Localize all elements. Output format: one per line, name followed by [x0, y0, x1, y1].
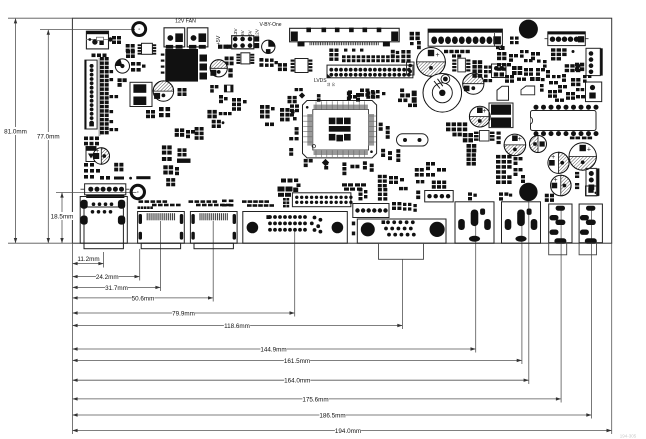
pads below U4 — [228, 68, 232, 77]
capacitor C5 — [210, 60, 227, 77]
connector CN17 — [586, 82, 602, 102]
dimension 186.5mm (bottom) — [72, 411, 591, 419]
pad grid right-mid — [496, 155, 525, 183]
dimension 11.2mm (bottom) — [72, 256, 103, 265]
resistor R4 — [224, 85, 233, 92]
capacitor C9 — [504, 134, 526, 156]
pad band above CN13 — [329, 49, 399, 63]
svg-text:+5V: +5V — [216, 35, 222, 45]
IC U1 (main scaler QFP) — [303, 101, 377, 158]
diode D1 — [86, 147, 96, 162]
resistor R1 — [100, 176, 124, 180]
VGA mounting tab — [379, 243, 424, 259]
svg-text:186.5mm: 186.5mm — [319, 412, 345, 419]
pad cluster above J6 — [432, 181, 446, 189]
svg-text:194.0mm: 194.0mm — [335, 428, 361, 435]
component SW1 — [586, 186, 599, 196]
pad cluster H — [260, 105, 275, 118]
connector CN2 (panel, left column) — [85, 58, 101, 136]
label V-BY-One — [259, 22, 281, 28]
pad cluster below CN13 — [348, 89, 385, 99]
capacitor C1 — [153, 81, 173, 101]
watermark — [620, 434, 637, 439]
svg-text:31.7mm: 31.7mm — [105, 285, 128, 292]
pad grid right-2 — [565, 64, 581, 72]
svg-text:+: + — [482, 108, 486, 115]
label 12V FAN — [175, 19, 196, 25]
silkscreen pads above DVI — [222, 200, 274, 207]
svg-text:+: + — [554, 177, 558, 184]
pad cluster right of U4 — [259, 58, 287, 71]
pad cluster 2x2 right of hole — [545, 194, 554, 202]
resistor row right of C6 — [444, 50, 470, 58]
component SW2 (tact switch outline) — [497, 86, 509, 100]
pad cluster NW of U1 — [288, 88, 303, 103]
svg-text:V-BY-One: V-BY-One — [259, 22, 281, 28]
connector CN12 (V-BY-One) — [290, 28, 400, 47]
svg-text:50.6mm: 50.6mm — [132, 295, 155, 302]
svg-text:+: + — [95, 148, 99, 155]
dense pad field top-right — [496, 37, 591, 102]
pad cluster NE of CN13 — [391, 50, 411, 63]
connector CN3 (RJ45 jack) — [80, 197, 127, 249]
resistor row below DIP — [570, 137, 592, 140]
resistor R2 — [136, 176, 150, 179]
svg-text:+: + — [435, 52, 439, 59]
svg-text:18.5mm: 18.5mm — [51, 213, 74, 220]
svg-text:30: 30 — [332, 83, 336, 87]
pad cluster right of CN1 — [112, 36, 121, 44]
svg-text:79.9mm: 79.9mm — [172, 310, 195, 317]
connector CN14 (10-pin header) — [428, 29, 504, 50]
capacitor C15 — [551, 175, 572, 196]
dimension 175.6mm (bottom) — [72, 395, 561, 403]
dimension 50.6mm (bottom) — [72, 294, 213, 302]
connector CN16 (4-pin top-right) — [586, 48, 603, 75]
header J6 (4-pin) — [425, 191, 454, 202]
capacitor C7 — [463, 73, 484, 94]
pads above long connector — [92, 54, 107, 58]
pad grid E of U6 — [472, 60, 492, 82]
header J5 (6-pin above VGA) — [353, 204, 389, 218]
mounting hole filled top-right — [519, 20, 538, 39]
pad cluster F (upper right of C1) — [210, 85, 218, 93]
component K2 (4-pad) — [492, 64, 507, 78]
mounting hole filled right-mid — [519, 183, 537, 201]
pad cluster E of U1 — [379, 123, 401, 162]
pad pairs left of CN15 — [575, 172, 579, 189]
svg-text:11.2mm: 11.2mm — [77, 256, 99, 263]
connector CN11 (audio jack 2) — [579, 204, 602, 244]
svg-text:+: + — [518, 136, 522, 143]
svg-text:77.0mm: 77.0mm — [37, 133, 60, 140]
dimension 118.6mm (bottom) — [72, 322, 402, 330]
pad cluster W of CN14 — [410, 32, 421, 49]
svg-text:144.9mm: 144.9mm — [260, 346, 286, 353]
obround slot with vias — [397, 134, 429, 146]
pad cluster 2x2 mid-left — [114, 163, 123, 172]
test pad (diamond NW) — [299, 92, 305, 98]
pad cluster D — [162, 145, 187, 161]
pad cluster above strip — [118, 78, 127, 87]
svg-text:194-305: 194-305 — [620, 434, 637, 439]
dimension 164.0mm (bottom) — [72, 376, 528, 384]
pad cluster left of U2 — [126, 44, 135, 52]
pad grid right-1 — [551, 48, 567, 60]
connector CN15 (4-pin right) — [586, 168, 599, 195]
capacitor C4 — [262, 40, 275, 53]
pad cluster B — [175, 127, 204, 140]
dimension 144.9mm (bottom) — [72, 345, 475, 353]
pad cluster G (C pads) — [219, 95, 247, 111]
connector CN5 (HDMI 2) — [190, 212, 237, 249]
pad rows below C2 — [84, 163, 100, 179]
silkscreen pads above HDMI 2 — [189, 200, 231, 206]
capacitor C12 — [530, 136, 547, 153]
IC U6 (TSSOP) — [452, 58, 470, 72]
label LVDS — [314, 78, 336, 86]
pads west of L1 — [398, 89, 417, 108]
connector CN10 (audio jack 1) — [549, 204, 572, 244]
via dot C — [222, 121, 225, 124]
svg-text:LVDS: LVDS — [314, 78, 327, 84]
IC U5 (TSSOP) — [291, 59, 313, 73]
svg-text:12V FAN: 12V FAN — [175, 19, 196, 25]
dimension 194.0mm (bottom) — [72, 427, 611, 435]
pad block SE of slot — [467, 149, 476, 166]
dimension 81.0mm (left) — [4, 18, 27, 243]
dimension 18.5mm (left) — [51, 192, 74, 243]
component Y1 (2-pin) — [407, 62, 415, 75]
pad cluster A — [146, 107, 170, 118]
pad cluster E2 — [163, 165, 179, 186]
connector CN8 (AV jack 1) — [455, 202, 494, 243]
connector CN13 (LVDS) — [327, 65, 413, 78]
pads left of U4 — [225, 57, 234, 66]
inductor L2 — [115, 59, 129, 73]
connector CN4 (HDMI 1) — [138, 212, 185, 249]
pad cluster I — [265, 108, 297, 126]
pad cluster right of J5 — [392, 202, 417, 212]
header J3 (6-pin) — [81, 184, 130, 198]
IC U4 (SOIC-8) — [236, 53, 254, 64]
silkscreen pads above HDMI 1 — [138, 200, 181, 209]
capacitor C2 — [93, 148, 109, 164]
header J8 (6-pin top-right) — [545, 31, 589, 45]
pads below C9 — [496, 180, 512, 184]
silk rows SW of U1 — [278, 179, 301, 208]
pad cluster W of U1 — [289, 104, 299, 155]
pad cluster N of U1 — [317, 91, 375, 101]
pad cluster mid-right — [426, 162, 446, 177]
pads left of J7 — [218, 45, 231, 49]
pad cluster C — [207, 110, 231, 128]
pad pair H-left of VGA — [352, 222, 355, 236]
svg-text:81.0mm: 81.0mm — [4, 128, 27, 135]
fan connector J1 — [164, 28, 185, 49]
audio jack 1 tab — [549, 243, 567, 255]
audio jack 2 tab — [579, 243, 596, 255]
pad cluster SE of CN1 — [126, 50, 135, 58]
IC U2 (SOIC-8) — [138, 43, 157, 54]
capacitor C8 — [469, 106, 490, 127]
capacitor C14 — [548, 152, 569, 173]
connector CN9 (AV jack 2) — [502, 202, 541, 243]
pad bars left of C9 — [497, 132, 501, 145]
silk rows S of U1 — [342, 183, 366, 190]
pad pair above jack1 — [416, 191, 420, 200]
pad grid right-3 — [571, 78, 580, 86]
pad rows below L1 — [446, 122, 476, 152]
fan connector J2 — [187, 28, 208, 49]
power rail labels — [233, 28, 260, 41]
IC U3 (power regulator, black body) — [161, 49, 207, 82]
IC U8 (SOT) — [474, 131, 495, 142]
connector CN1 (top-left) — [86, 31, 112, 49]
dimension 77.0mm (left) — [37, 30, 60, 244]
PCB board outline — [72, 18, 611, 243]
capacitor pair C10/C11 — [130, 82, 152, 106]
header J7 (power) — [232, 36, 260, 49]
pad cluster right of L2 — [131, 62, 146, 72]
via dot right — [572, 50, 575, 53]
svg-text:161.5mm: 161.5mm — [284, 358, 310, 365]
pad cluster above VGA — [378, 188, 387, 201]
pad strip right of CN2 — [100, 57, 118, 134]
svg-text:118.6mm: 118.6mm — [224, 323, 250, 330]
svg-text:24.2mm: 24.2mm — [96, 274, 119, 281]
inductor L1 (toroid) — [423, 74, 462, 113]
capacitor C13 (large) — [569, 143, 596, 170]
via dot — [129, 177, 132, 180]
label +5V — [216, 35, 222, 45]
dimension 31.7mm (bottom) — [72, 283, 160, 291]
component SW3 (outline) — [521, 86, 535, 95]
svg-text:+: + — [551, 154, 555, 161]
connector CN6 (DVI) — [243, 212, 347, 244]
pad cluster S of U1 — [304, 159, 374, 175]
pads NE corner 2x2 — [575, 63, 584, 71]
component K1 (dual black modules) — [489, 103, 513, 128]
pad rows E mid-band — [378, 168, 425, 190]
dimension 161.5mm (bottom) — [72, 356, 522, 364]
pad cluster near VGA top-left — [359, 188, 368, 200]
header J4 (2x12) — [292, 193, 352, 207]
resistor R3 — [177, 159, 191, 163]
mounting hole ring top-left — [133, 23, 146, 36]
dimension 24.2mm (bottom) — [72, 273, 139, 281]
test pad (diamond) — [322, 159, 329, 166]
svg-text:164.0mm: 164.0mm — [284, 378, 310, 385]
connector CN7 (VGA DB15) — [357, 219, 446, 243]
pad cluster above CN8 — [468, 192, 477, 200]
dimension extension lines (left) — [8, 18, 137, 243]
pad rows mid-left — [84, 137, 99, 146]
IC U7 (DIP) — [531, 105, 599, 136]
svg-text:32: 32 — [327, 83, 331, 87]
pad cluster above CN9 — [499, 192, 512, 200]
dimension 79.9mm (bottom) — [72, 309, 294, 317]
mounting hole ring mid-left — [131, 185, 144, 198]
pad cluster right of C1 — [178, 88, 187, 96]
svg-text:+: + — [587, 147, 591, 154]
svg-text:175.6mm: 175.6mm — [302, 396, 328, 403]
dimension extension lines (bottom) — [72, 202, 611, 435]
capacitor C6 (large) — [417, 48, 446, 77]
